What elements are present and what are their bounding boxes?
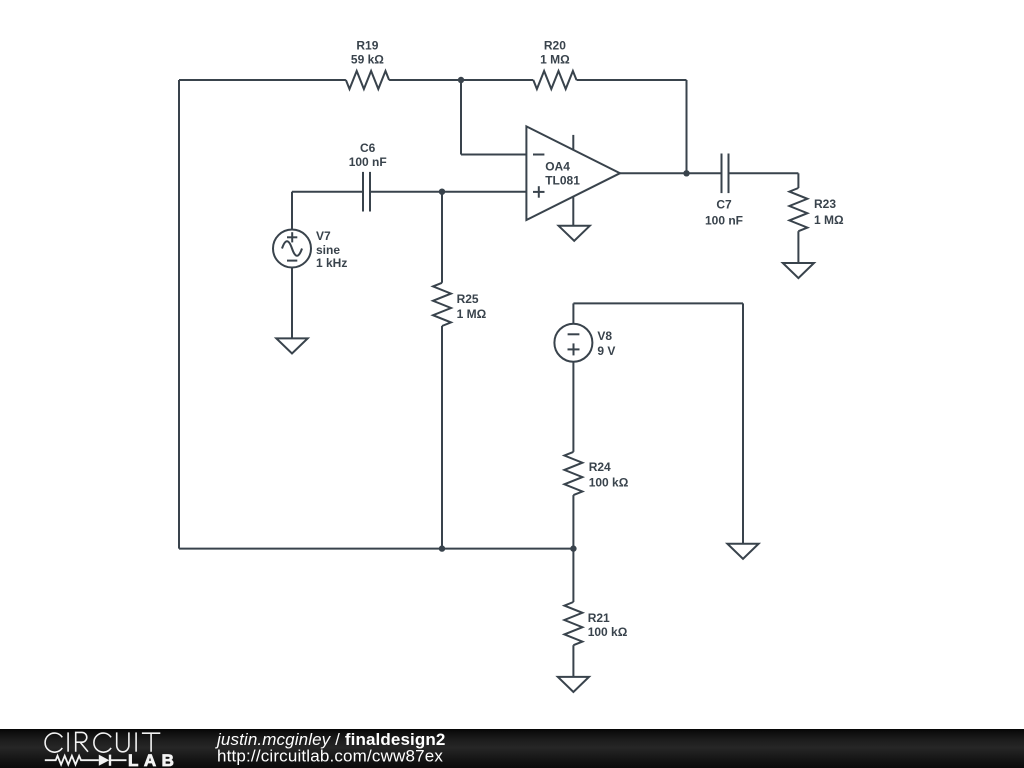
svg-text:1 MΩ: 1 MΩ bbox=[540, 52, 570, 66]
svg-text:C6: C6 bbox=[360, 141, 376, 155]
ground R23 bbox=[783, 263, 814, 278]
svg-text:R25: R25 bbox=[457, 292, 479, 306]
footer bar bbox=[0, 729, 1024, 768]
wire V7 top stub bbox=[291, 192, 293, 230]
C6 label C6 / 100 nF bbox=[349, 141, 387, 169]
op-amp label OA4 / TL081 bbox=[545, 160, 580, 188]
wire node A down bbox=[460, 80, 462, 155]
op-amp minus mark bbox=[533, 154, 544, 156]
wire V8 top stub bbox=[572, 303, 574, 323]
svg-text:100 kΩ: 100 kΩ bbox=[588, 625, 628, 639]
capacitor C7 bbox=[722, 154, 729, 194]
svg-text:100 nF: 100 nF bbox=[349, 155, 387, 169]
logo diode bbox=[99, 755, 127, 766]
wire to op-amp inverting input bbox=[461, 154, 526, 156]
I bbox=[135, 732, 137, 751]
node E junction dot (output) bbox=[683, 170, 689, 176]
voltage source V7 (sine) bbox=[273, 230, 311, 268]
node D junction dot bbox=[439, 189, 445, 195]
resistor R23 bbox=[789, 188, 807, 231]
CircuitLab logo bbox=[0, 729, 1024, 768]
wire R21 to ground bbox=[572, 645, 574, 677]
T bbox=[142, 733, 160, 752]
node B junction dot (R25 bottom) bbox=[439, 545, 445, 551]
svg-text:R19: R19 bbox=[356, 39, 378, 53]
wire node A to R20 bbox=[461, 79, 533, 81]
R23 label R23 / 1 MOhm bbox=[814, 197, 844, 227]
svg-text:59 kΩ: 59 kΩ bbox=[351, 52, 384, 66]
wire V7 bottom stub bbox=[291, 268, 293, 339]
capacitor C6 bbox=[363, 172, 370, 212]
R21 label R21 / 100 kOhm bbox=[588, 611, 628, 639]
wire R19 to node A bbox=[389, 79, 461, 81]
ground right column bbox=[727, 544, 758, 559]
wire R25 bottom to node B bbox=[441, 326, 443, 549]
svg-text:R21: R21 bbox=[588, 611, 610, 625]
op-amp top power stub bbox=[572, 135, 574, 151]
R20 label R20 / 1 MOhm bbox=[540, 39, 570, 67]
wire C6 to node D bbox=[370, 191, 442, 193]
wire V8 top horizontal bbox=[573, 302, 743, 304]
wire R20 right horizontal bbox=[577, 79, 687, 81]
R24 label R24 / 100 kOhm bbox=[589, 460, 629, 490]
node C junction dot (R24/R21) bbox=[570, 545, 576, 551]
logo word CIRCUIT bbox=[45, 732, 160, 752]
R19 label R19 / 59 kOhm bbox=[351, 39, 384, 67]
wire V8 bottom to R24 bbox=[572, 362, 574, 452]
wire right vertical down bbox=[742, 303, 744, 543]
I bbox=[67, 732, 69, 751]
svg-text:http://circuitlab.com/cww87ex: http://circuitlab.com/cww87ex bbox=[217, 747, 443, 766]
R25 label R25 / 1 MOhm bbox=[457, 292, 487, 321]
ground R21 bbox=[558, 677, 589, 692]
R bbox=[76, 732, 88, 751]
wire feedback vertical down to output node bbox=[686, 80, 688, 173]
wire node D to op-amp non-inverting input bbox=[442, 191, 526, 193]
C7 label C7 / 100 nF bbox=[705, 198, 743, 228]
C bbox=[45, 733, 62, 752]
wire left vertical long bbox=[178, 80, 180, 549]
svg-text:1 kHz: 1 kHz bbox=[316, 256, 347, 270]
resistor R25 bbox=[433, 283, 451, 326]
U bbox=[117, 732, 129, 751]
node A junction dot bbox=[458, 77, 464, 83]
resistor R20 bbox=[533, 71, 576, 89]
svg-text:TL081: TL081 bbox=[545, 174, 580, 188]
wire node D down to R25 bbox=[441, 192, 443, 283]
svg-text:9 V: 9 V bbox=[597, 344, 615, 358]
wire R23 to ground bbox=[797, 231, 799, 263]
svg-text:100 nF: 100 nF bbox=[705, 213, 743, 227]
svg-text:1 MΩ: 1 MΩ bbox=[814, 213, 844, 227]
resistor R19 bbox=[346, 71, 389, 89]
wire C7 to R23 bbox=[729, 172, 799, 174]
svg-text:C7: C7 bbox=[716, 198, 732, 212]
V8 label V8 / 9 V bbox=[597, 329, 615, 358]
C bbox=[94, 733, 111, 752]
wire node C down to R21 bbox=[572, 549, 574, 602]
svg-text:R20: R20 bbox=[544, 39, 566, 53]
resistor R21 bbox=[564, 602, 582, 645]
svg-text:1 MΩ: 1 MΩ bbox=[457, 307, 487, 321]
wire R24 bottom to node C bbox=[572, 495, 574, 548]
wire V7 to C6 bbox=[292, 191, 363, 193]
resistor R24 bbox=[564, 452, 582, 495]
svg-text:OA4: OA4 bbox=[545, 160, 570, 174]
op-amp bottom power stub bbox=[572, 196, 574, 226]
ground op-amp bbox=[559, 226, 590, 241]
svg-text:100 kΩ: 100 kΩ bbox=[589, 476, 629, 490]
voltage source V8 (battery) bbox=[554, 324, 592, 362]
svg-text:LAB: LAB bbox=[128, 751, 179, 768]
svg-text:V7: V7 bbox=[316, 229, 331, 243]
svg-text:V8: V8 bbox=[597, 329, 612, 343]
svg-text:R24: R24 bbox=[589, 460, 611, 474]
wire down to R23 bbox=[797, 173, 799, 188]
svg-text:sine: sine bbox=[316, 243, 340, 257]
svg-text:R23: R23 bbox=[814, 197, 836, 211]
op-amp plus mark bbox=[533, 186, 545, 198]
wire top-left horizontal to R19 bbox=[179, 79, 346, 81]
op-amp OA4 triangle bbox=[526, 126, 620, 220]
V7 label V7 / sine / 1 kHz bbox=[316, 229, 347, 270]
logo resistor squiggle bbox=[45, 756, 99, 765]
wire op-amp output bbox=[620, 172, 722, 174]
ground V7 bbox=[276, 338, 307, 353]
wire bottom horizontal bbox=[179, 548, 573, 550]
